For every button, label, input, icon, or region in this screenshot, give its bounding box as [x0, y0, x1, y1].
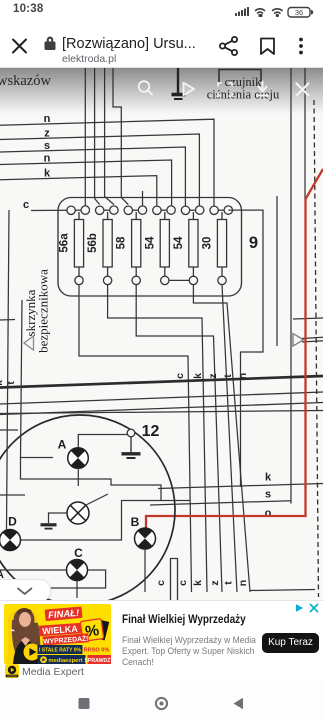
wire drop to fuse 56a right: [84, 68, 86, 206]
wire staircase 2: [108, 285, 207, 592]
fuse 54: [153, 206, 176, 285]
svg-text:bezpiecznikowa: bezpiecznikowa: [36, 269, 51, 353]
svg-text:mediaexpert: mediaexpert: [48, 658, 82, 664]
svg-text:z: z: [209, 580, 221, 585]
wire left stub y320: [0, 319, 15, 322]
wire lamp C bottom: [76, 581, 78, 599]
wire lamp A loop left: [21, 458, 162, 501]
wire bottom right horizontal: [250, 590, 315, 591]
wire stub to fuse 58 right: [142, 191, 144, 206]
svg-text:B: B: [131, 515, 140, 529]
wire bus s2: [0, 147, 185, 206]
wire right branch: [276, 196, 278, 346]
oil pressure sensor box: [219, 70, 261, 83]
wire red supply to lamp B: [146, 169, 323, 528]
svg-text:c: c: [155, 580, 167, 586]
svg-text:k: k: [192, 580, 204, 586]
svg-text:t: t: [222, 374, 234, 378]
svg-text:k: k: [192, 373, 204, 379]
wire bus z1: [0, 134, 199, 206]
wire staircase 1: [79, 285, 192, 592]
lamp middle: [67, 502, 89, 524]
wire middle lamp diagonal: [86, 494, 108, 505]
svg-text:I STAŁE RATY 0%: I STAŁE RATY 0%: [39, 647, 82, 653]
svg-text:z: z: [207, 373, 219, 378]
wire lamp C left: [0, 569, 67, 571]
lamp D: [0, 530, 21, 551]
wire bus n0: [0, 119, 214, 206]
wire jog drop to fuse 58 left: [113, 68, 128, 205]
wire bus L1: [0, 392, 323, 404]
ground middle lamp: [41, 525, 57, 529]
wire c to fuse box: [31, 209, 67, 211]
wire lamp D right: [21, 501, 191, 541]
lamp C: [67, 560, 88, 581]
lamp B: [135, 528, 156, 549]
wire bus n3: [0, 160, 172, 206]
wire bus L3: [0, 411, 323, 414]
node 12 terminal: [127, 429, 135, 437]
svg-text:z: z: [44, 127, 50, 139]
svg-text:A: A: [58, 438, 67, 452]
wire drop to fuse 56b left: [95, 68, 100, 205]
svg-text:58: 58: [116, 236, 128, 249]
svg-text:s: s: [265, 489, 271, 501]
svg-text:n: n: [44, 152, 51, 164]
svg-text:c: c: [23, 199, 29, 211]
svg-text:9: 9: [249, 234, 258, 252]
svg-text:C: C: [74, 546, 83, 560]
wire s line: [150, 501, 291, 505]
svg-text:12: 12: [142, 423, 160, 440]
wire middle lamp left: [49, 513, 68, 523]
wire thick bus: [0, 376, 323, 388]
wire lamp C right loop: [44, 570, 106, 588]
svg-text:56a: 56a: [59, 233, 71, 253]
svg-text:k: k: [0, 380, 5, 386]
wire sensor leg 2: [304, 68, 306, 199]
svg-text:k: k: [44, 168, 51, 180]
svg-text:s: s: [44, 140, 50, 152]
wire bus k4: [0, 176, 157, 206]
wire left vertical 1: [7, 210, 10, 530]
fuse 54: [181, 206, 204, 285]
svg-text:k: k: [265, 472, 272, 484]
wire fuse 30 column: [222, 285, 237, 592]
component bottom right: [171, 559, 178, 601]
wire bus L2: [0, 403, 323, 415]
fuse box skrzynka bezpiecznikowa: [58, 198, 242, 297]
wire lamp A top to terminal 12: [78, 435, 127, 448]
instrument cluster circle: [0, 415, 175, 605]
svg-text:56b: 56b: [87, 233, 99, 253]
wire dashed border: [314, 100, 319, 597]
svg-text:SPRAWDŹ ›: SPRAWDŹ ›: [84, 655, 111, 663]
svg-text:o: o: [265, 508, 272, 520]
svg-text:c: c: [177, 580, 189, 586]
fuse 30: [210, 206, 233, 285]
fuse 56b: [96, 206, 119, 285]
node connector arrow left: [24, 336, 34, 350]
ground top (sensor): [172, 68, 186, 99]
svg-text:n: n: [237, 580, 249, 586]
svg-text:n: n: [237, 373, 249, 379]
wire drop to fuse 56b right: [105, 68, 114, 205]
svg-text:36: 36: [295, 8, 303, 17]
svg-text:n: n: [44, 113, 51, 125]
svg-text:RRSO 0%: RRSO 0%: [83, 647, 109, 653]
wire k line: [158, 484, 323, 489]
fuse 56a: [67, 206, 90, 285]
wire lamp A bottom: [77, 468, 79, 486]
fuse 58: [124, 206, 147, 285]
wire sensor leg 1: [290, 68, 292, 504]
wire left vertical 2: [21, 300, 23, 458]
wire joining 54 pair: [169, 279, 189, 281]
ground under 12: [122, 437, 141, 458]
svg-text:c: c: [174, 373, 186, 379]
lamp A: [68, 448, 89, 469]
wire staircase 5: [193, 285, 250, 592]
svg-text:54: 54: [173, 236, 185, 249]
svg-text:54: 54: [144, 236, 156, 249]
wire fuse 30 top right branch: [229, 210, 264, 487]
node connector arrow right: [293, 334, 304, 347]
wire arrow pair lines: [302, 337, 323, 338]
svg-text:30: 30: [202, 237, 214, 250]
wire left stub y495: [0, 494, 25, 496]
wire right stub y318: [293, 318, 323, 319]
wire staircase 3: [136, 285, 222, 592]
wire left stub y430: [0, 429, 18, 431]
svg-text:t: t: [223, 581, 235, 585]
svg-text:D: D: [8, 515, 17, 529]
wire lamp B bottom: [144, 549, 146, 592]
